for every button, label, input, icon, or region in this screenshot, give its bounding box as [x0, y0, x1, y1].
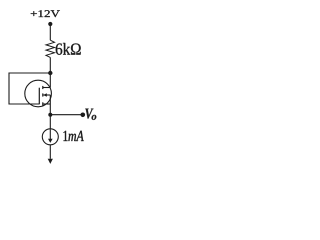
wire current source to ground [49, 145, 51, 159]
transistor Q1 body lead [43, 94, 50, 96]
wire supply dot to resistor [49, 24, 51, 40]
transistor Q1 envelope [25, 80, 52, 107]
value label mA [68, 131, 83, 141]
feedback wire gate to drain [9, 73, 50, 104]
node label subscript o [92, 115, 97, 120]
junction dot gate-drain node [48, 71, 52, 75]
junction dot output node [48, 113, 52, 117]
transistor Q1 source lead [43, 103, 51, 105]
value label 1 [63, 131, 67, 141]
current source I1 arrow shaft [49, 129, 51, 140]
wire source to output node [49, 95, 51, 115]
ground arrowhead [48, 159, 53, 164]
current source I1 circle [42, 129, 58, 145]
wire output node to current source [49, 115, 51, 129]
transistor Q1 drain lead [43, 87, 51, 89]
current source I1 arrowhead [48, 139, 53, 143]
transistor Q1 channel segment source [42, 102, 44, 105]
supply label +12V [31, 10, 60, 17]
wire resistor to drain [49, 57, 51, 87]
transistor Q1 gate bar [38, 88, 40, 105]
wire output node to terminal [50, 114, 83, 116]
output terminal dot [81, 113, 86, 118]
transistor Q1 channel segment body [42, 93, 44, 96]
transistor Q1 body arrowhead [43, 93, 47, 96]
value label 6k ohm [56, 43, 81, 55]
resistor R 6k [46, 40, 55, 57]
supply terminal dot [48, 22, 52, 26]
transistor Q1 channel segment drain [42, 86, 44, 89]
node label Vo [85, 109, 93, 119]
